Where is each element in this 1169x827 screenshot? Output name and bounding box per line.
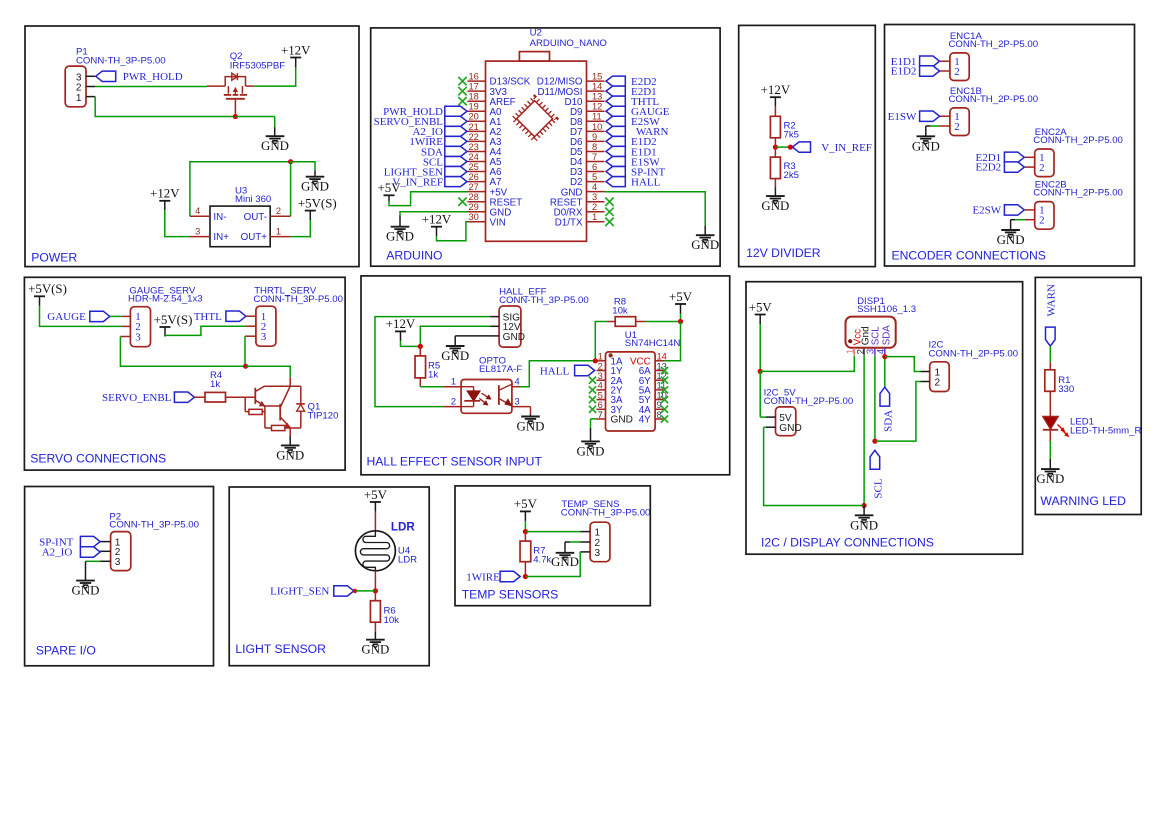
svg-text:GND: GND — [386, 230, 414, 244]
ground symbol power-2 — [306, 176, 325, 178]
svg-text:3: 3 — [115, 557, 121, 568]
junction hall 12V node — [418, 344, 423, 349]
wire gnd rail to Q1 collector — [246, 366, 291, 377]
net flag E1D2 — [920, 66, 940, 76]
connector HALL_EFF CONN-TH_3P-P5.00 — [499, 306, 521, 347]
resistor R2 7k5 — [770, 116, 780, 138]
ENC2A pin 1 stub — [1025, 156, 1035, 158]
wire flag to node — [355, 590, 375, 592]
U2 right pin 8 D5 — [587, 150, 605, 152]
svg-text:12V DIVIDER: 12V DIVIDER — [746, 246, 821, 260]
ENC2A pin 2 stub — [1025, 166, 1035, 168]
WARNING LED section frame — [1035, 277, 1141, 514]
wire P2 pin3 to ground — [86, 560, 100, 562]
svg-text:LDR: LDR — [398, 555, 417, 566]
svg-text:10k: 10k — [384, 615, 400, 626]
svg-text:GAUGE: GAUGE — [47, 311, 86, 323]
R3 lower lead — [774, 179, 776, 188]
wire SDA node to I2C pin1 — [885, 357, 921, 372]
svg-text:SERVO CONNECTIONS: SERVO CONNECTIONS — [30, 451, 166, 465]
svg-text:GND: GND — [551, 555, 579, 569]
no-connect X on U1 right pin 13 — [661, 367, 668, 374]
svg-text:GND: GND — [261, 139, 289, 153]
svg-text:13: 13 — [592, 92, 602, 102]
wire GAUGE flag to pin1 — [110, 315, 122, 317]
svg-text:28: 28 — [469, 192, 479, 202]
ic U1 SN74HC14N — [606, 352, 656, 431]
svg-text:CONN-TH_3P-P5.00: CONN-TH_3P-P5.00 — [561, 507, 651, 518]
svg-text:2: 2 — [1039, 162, 1045, 174]
svg-text:3: 3 — [592, 192, 597, 202]
wire +5V(S) to GAUGE_SERV pin2 — [40, 306, 122, 327]
svg-text:6: 6 — [592, 162, 597, 172]
svg-text:1: 1 — [598, 352, 603, 362]
svg-text:CONN-TH_2P-P5.00: CONN-TH_2P-P5.00 — [949, 94, 1039, 105]
svg-text:4.7k: 4.7k — [533, 555, 551, 566]
THRTL_SERV pin stubs — [246, 315, 256, 317]
svg-text:330: 330 — [1058, 384, 1074, 395]
OPTO light arrows — [482, 393, 491, 399]
U3 pin 2 stub — [270, 215, 290, 217]
svg-text:GND: GND — [761, 199, 789, 213]
svg-text:4Y: 4Y — [639, 415, 651, 426]
svg-text:3: 3 — [595, 548, 601, 559]
wire U2 pin4 GND to ground right — [605, 192, 706, 226]
svg-text:SSH1106_1.3: SSH1106_1.3 — [857, 304, 916, 315]
net flag 1WIRE (U2 left) — [445, 136, 467, 146]
svg-text:+5V: +5V — [377, 181, 401, 195]
net flag E1D1 — [920, 56, 940, 66]
junction at Q2 gate node — [233, 114, 238, 119]
display DISP1 SSH1106_1.3 — [846, 317, 896, 348]
net flag V_IN_REF — [793, 142, 811, 152]
wire SDA pin down — [884, 363, 886, 387]
svg-text:SN74HC14N: SN74HC14N — [625, 338, 681, 349]
U3 pin 3 stub — [190, 236, 210, 238]
U1 left pin 5 3A — [597, 399, 606, 401]
svg-text:GND: GND — [997, 233, 1025, 247]
connector P1 CONN-TH_3P-P5.00 — [65, 66, 86, 107]
transistor Q1 TIP120 darlington — [289, 377, 291, 386]
net flag E1D2 (U2 right) — [606, 136, 625, 146]
SPARE I/O section frame — [25, 487, 214, 666]
svg-text:GND: GND — [503, 332, 525, 343]
wire node to TEMP_SENS pin1 — [525, 531, 580, 533]
svg-text:GND: GND — [276, 448, 304, 462]
svg-text:U2: U2 — [530, 28, 542, 39]
U2 right pin 7 D4 — [587, 161, 605, 163]
U2 right pin 2 D0/RX — [587, 211, 605, 213]
U2 left pin 29 GND — [468, 211, 486, 213]
no-connect X on right pin 1 — [605, 218, 613, 226]
wire +12V to U2 pin30 VIN — [437, 222, 468, 241]
net flag E1SW — [920, 111, 940, 121]
net flag THTL (U2 right) — [606, 96, 625, 106]
ground symbol opto — [521, 416, 540, 418]
svg-text:6: 6 — [598, 400, 603, 410]
svg-text:12: 12 — [592, 102, 602, 112]
svg-text:1: 1 — [451, 376, 456, 386]
net flag E2SW (U2 right) — [606, 116, 625, 126]
svg-text:IRF5305PBF: IRF5305PBF — [230, 61, 286, 72]
wire gate node to GND drop — [235, 116, 274, 118]
I2C / DISPLAY CONNECTIONS section frame — [746, 282, 1023, 555]
svg-text:11: 11 — [592, 112, 602, 122]
svg-text:TIP120: TIP120 — [308, 411, 339, 422]
wire opto pin3 to ground — [530, 407, 532, 415]
wire GAUGE_SERV pin3 down to servo gnd rail — [120, 337, 245, 367]
svg-text:GND: GND — [361, 643, 389, 657]
I2C_5V pin stubs — [766, 416, 776, 418]
U1 right pin 12 6Y — [655, 379, 664, 381]
OPTO pin 4 stub — [512, 386, 520, 388]
svg-text:SPARE I/O: SPARE I/O — [36, 643, 96, 657]
net flag E2D2 — [1004, 162, 1024, 172]
svg-text:IN+: IN+ — [213, 232, 229, 243]
connector ENC1B CONN-TH_2P-P5.00 — [950, 108, 969, 136]
U2 left pin 17 3V3 — [468, 90, 486, 92]
U2 left pin 18 AREF — [468, 100, 486, 102]
U2 left pin 27 +5V — [468, 191, 486, 193]
U1 left pin 6 3Y — [597, 408, 606, 410]
U2 left pin 28 RESET — [468, 201, 486, 203]
U1 left pin 2 1Y — [597, 370, 606, 372]
no-connect X on U1 right pin 10 — [661, 396, 668, 403]
POWER section frame — [25, 26, 359, 267]
ground symbol power-1 — [266, 135, 285, 137]
wire Gnd pin down to gnd rail — [863, 363, 865, 506]
U2 left pin 23 A4 — [468, 150, 486, 152]
junction 1WIRE node — [523, 574, 528, 579]
no-connect X on right pin 2 — [605, 208, 613, 216]
ENC1B pin 1 stub — [940, 115, 950, 117]
wire 12V pin riser — [420, 326, 490, 346]
wire U1 pin7 to ground — [591, 418, 597, 420]
P2 pin stubs — [100, 541, 111, 543]
no-connect X on left pin 16 — [458, 77, 466, 85]
wire ENC2B pin2 to ground — [1015, 219, 1025, 221]
svg-text:1k: 1k — [210, 379, 220, 390]
ldr U4 meander — [360, 531, 389, 571]
svg-text:+12V: +12V — [386, 317, 416, 331]
ground symbol hall connector — [446, 345, 465, 347]
wire +12V to U3 IN+ — [165, 210, 190, 236]
no-connect X on right pin 3 — [605, 198, 613, 206]
svg-text:CONN-TH_3P-P5.00: CONN-TH_3P-P5.00 — [253, 294, 343, 305]
wire P1 pin2 to Q2 source — [95, 86, 207, 88]
svg-text:GND: GND — [441, 349, 469, 363]
no-connect X on U1 right pin 11 — [661, 386, 668, 393]
net flag PWR_HOLD — [96, 71, 116, 81]
R6 leads — [374, 591, 376, 601]
U2 right pin 15 D12/MISO — [587, 80, 605, 82]
net flag E1SW (U2 right) — [606, 156, 625, 166]
svg-text:ARDUINO_NANO: ARDUINO_NANO — [530, 38, 607, 49]
U2 left pin 20 A1 — [468, 120, 486, 122]
svg-text:2: 2 — [592, 202, 597, 212]
svg-text:17: 17 — [469, 82, 479, 92]
svg-text:4: 4 — [598, 381, 603, 391]
svg-text:1WIRE: 1WIRE — [466, 571, 500, 583]
Q1 emitter lead — [289, 428, 291, 435]
svg-text:3: 3 — [135, 331, 141, 343]
connector ENC2A CONN-TH_2P-P5.00 — [1035, 149, 1054, 177]
svg-text:4: 4 — [515, 376, 520, 386]
U2 left pin 21 A2 — [468, 130, 486, 132]
svg-text:3: 3 — [195, 227, 200, 237]
svg-text:+5V: +5V — [364, 488, 388, 502]
LDR lower lead — [374, 571, 376, 591]
svg-text:GND: GND — [577, 444, 605, 458]
P1 pin 2 stub — [86, 86, 95, 88]
net flag SDA (U2 left) — [445, 146, 467, 156]
ground symbol divider — [766, 195, 785, 197]
svg-text:8: 8 — [657, 410, 662, 420]
Q2 gate lead — [234, 99, 236, 117]
U2 right pin 9 D6 — [587, 140, 605, 142]
svg-text:CONN-TH_2P-P5.00: CONN-TH_2P-P5.00 — [949, 39, 1039, 50]
svg-text:E1D2: E1D2 — [891, 66, 917, 78]
U2 left pin 24 A5 — [468, 161, 486, 163]
svg-text:16: 16 — [469, 72, 479, 82]
wire +5V to LDR — [374, 511, 376, 531]
ENC2B pin 2 stub — [1025, 219, 1035, 221]
U2 left pin 30 VIN — [468, 221, 486, 223]
ground symbol arduino-right — [696, 234, 715, 236]
svg-text:SDA: SDA — [883, 410, 895, 432]
svg-text:2: 2 — [935, 377, 941, 388]
resistor R6 10k — [370, 601, 380, 623]
net flag LIGHT_SEN (U2 left) — [445, 167, 467, 177]
net flag SP-INT (U2 right) — [606, 167, 625, 177]
net flag A2_IO (U2 left) — [445, 126, 467, 136]
connector ENC1A CONN-TH_2P-P5.00 — [950, 53, 969, 81]
junction U3 OUT- / GND — [288, 159, 293, 164]
svg-text:7: 7 — [598, 410, 603, 420]
svg-text:10: 10 — [592, 122, 602, 132]
svg-text:25: 25 — [469, 162, 479, 172]
svg-text:CONN-TH_2P-P5.00: CONN-TH_2P-P5.00 — [1033, 135, 1123, 146]
junction SDA node — [882, 354, 887, 359]
wire +12V to node — [401, 341, 421, 347]
wire to V_IN_REF flag — [775, 146, 790, 148]
svg-text:7: 7 — [592, 152, 597, 162]
resistor R7 4.7k — [520, 541, 531, 562]
svg-text:GND: GND — [611, 415, 633, 426]
svg-text:PWR_HOLD: PWR_HOLD — [123, 71, 183, 83]
ground symbol warning — [1041, 468, 1060, 470]
wire THRTL_SERV pin3 to gnd rail — [244, 336, 246, 366]
no-connect X on U1 left pin 6 — [589, 406, 596, 413]
svg-text:Gnd: Gnd — [860, 326, 871, 345]
no-connect X on left pin 18 — [458, 97, 466, 105]
svg-text:2: 2 — [954, 121, 960, 133]
R2 lower lead — [774, 138, 776, 147]
U2 right pin 13 D10 — [587, 100, 605, 102]
svg-text:GND: GND — [691, 238, 719, 252]
U2 right pin 12 D9 — [587, 110, 605, 112]
resistor R1 330 — [1045, 370, 1055, 392]
svg-text:OUT-: OUT- — [244, 212, 267, 223]
R8 right lead to +5V riser — [636, 321, 646, 323]
junction i2c +5V node — [758, 369, 763, 374]
svg-text:2k5: 2k5 — [784, 170, 799, 181]
no-connect X on left pin 17 — [458, 87, 466, 95]
svg-text:WARNING LED: WARNING LED — [1040, 494, 1126, 508]
R5 leads — [419, 346, 421, 356]
svg-text:HALL EFFECT SENSOR INPUT: HALL EFFECT SENSOR INPUT — [367, 455, 543, 469]
U2 right pin 11 D8 — [587, 120, 605, 122]
wire opto pin4 up to hall row — [520, 361, 595, 387]
wire I2C_5V GND down to rail — [764, 426, 766, 428]
ENC1A pin 1 stub — [940, 60, 950, 62]
U1 right pin 8 4Y — [655, 418, 664, 420]
svg-text:20: 20 — [469, 112, 479, 122]
svg-text:1k: 1k — [428, 369, 438, 380]
net flag E2D2 (U2 right) — [606, 76, 625, 86]
svg-text:WARN: WARN — [1046, 284, 1058, 316]
ground symbol arduino-left — [391, 226, 410, 228]
R1 lower lead — [1049, 391, 1051, 416]
wire gnd rail to ground — [863, 506, 865, 516]
ldr U4 body circle — [355, 531, 395, 571]
svg-text:9: 9 — [592, 132, 597, 142]
R8 left elbow to U1 pin1 — [607, 321, 616, 323]
svg-text:+5V: +5V — [514, 497, 538, 511]
OPTO pin 1 stub — [443, 386, 461, 388]
svg-text:GND: GND — [850, 518, 878, 532]
OPTO pin 3 stub — [512, 406, 531, 408]
resistor R5 1k — [415, 356, 426, 378]
net flag SERVO_ENBL — [174, 392, 194, 402]
mcu U2 ARDUINO_NANO body — [486, 61, 587, 241]
HALL_EFF pin stubs — [490, 316, 499, 318]
no-connect X on U1 left pin 5 — [589, 396, 596, 403]
svg-text:GND: GND — [517, 420, 545, 434]
U1 left pin 4 2Y — [597, 389, 606, 391]
svg-text:10k: 10k — [612, 305, 628, 316]
svg-text:OUT+: OUT+ — [241, 232, 268, 243]
ground symbol servo — [281, 444, 300, 446]
svg-text:E2SW: E2SW — [972, 205, 1001, 217]
no-connect X on U1 right pin 12 — [661, 377, 668, 384]
wire +5V to node — [524, 521, 526, 532]
net flag WARN (down) — [1046, 327, 1056, 346]
svg-text:+5V(S): +5V(S) — [28, 282, 67, 296]
wire P1 pin1 down-right to gate node — [95, 97, 233, 117]
net flag HALL — [575, 365, 595, 375]
OPTO internal led — [461, 386, 474, 388]
wire ENC1B pin2 to ground — [930, 125, 940, 127]
wire TEMP_SENS pin2 to ground — [570, 541, 580, 543]
svg-text:THTL: THTL — [194, 311, 222, 323]
12V DIVIDER section frame — [739, 25, 876, 266]
wire +12V to R2 — [774, 107, 776, 117]
P1 pin 1 stub — [86, 96, 95, 98]
svg-text:+5V(S): +5V(S) — [298, 196, 337, 210]
svg-text:GND: GND — [912, 139, 940, 153]
net flag HALL (U2 right) — [606, 177, 625, 187]
ENC2B pin 1 stub — [1025, 209, 1035, 211]
svg-text:2: 2 — [598, 361, 603, 371]
svg-text:SCL: SCL — [871, 326, 882, 346]
net flag GAUGE — [90, 311, 110, 321]
svg-text:IN-: IN- — [213, 212, 226, 223]
svg-text:HALL: HALL — [631, 176, 661, 188]
wire WARN to R1 — [1049, 346, 1051, 362]
svg-text:9: 9 — [657, 400, 662, 410]
svg-text:SDA: SDA — [881, 325, 892, 346]
svg-text:3: 3 — [515, 396, 520, 406]
svg-text:CONN-TH_2P-P5.00: CONN-TH_2P-P5.00 — [1033, 188, 1123, 199]
U2 left pin 22 A3 — [468, 140, 486, 142]
resistor R3 2k5 — [770, 157, 780, 179]
svg-text:EL817A-F: EL817A-F — [479, 364, 522, 375]
net flag WARN (U2 right) — [606, 126, 625, 136]
svg-text:22: 22 — [469, 132, 479, 142]
svg-text:CONN-TH_3P-P5.00: CONN-TH_3P-P5.00 — [109, 520, 199, 531]
wire GND pin elbow — [455, 335, 490, 337]
U1 right pin 9 4A — [655, 408, 664, 410]
ground symbol spare — [76, 580, 95, 582]
R7 leads — [524, 532, 526, 542]
svg-text:27: 27 — [469, 182, 479, 192]
P1 pin 3 stub — [86, 75, 95, 77]
no-connect X on U1 right pin 8 — [661, 415, 668, 422]
net flag V_IN_REF (U2 left) — [445, 177, 467, 187]
DISP1 pin1 marker dot — [848, 339, 852, 343]
svg-text:21: 21 — [469, 122, 479, 132]
svg-text:LIGHT_SEN: LIGHT_SEN — [270, 586, 329, 598]
svg-text:4: 4 — [195, 206, 200, 216]
wire +5V to U2 pin 27 — [389, 192, 468, 206]
net flag 1WIRE — [500, 571, 520, 581]
svg-text:4: 4 — [592, 182, 597, 192]
junction U1 pin1 node — [593, 358, 598, 363]
wire +5V riser — [680, 314, 682, 322]
svg-text:2: 2 — [954, 66, 960, 78]
TEMP SENSORS section frame — [455, 486, 650, 606]
no-connect X on left pin 28 — [458, 198, 466, 206]
svg-text:+12V: +12V — [761, 83, 791, 97]
I2C pin stubs — [920, 371, 929, 373]
LED1 cathode lead — [1049, 430, 1051, 441]
no-connect X on U1 left pin 4 — [589, 386, 596, 393]
svg-text:23: 23 — [469, 142, 479, 152]
U2 usb notch — [519, 52, 549, 62]
LED1 light arrows — [1058, 425, 1065, 432]
svg-text:30: 30 — [469, 212, 479, 222]
svg-text:+5V(S): +5V(S) — [154, 313, 193, 327]
R1 upper lead — [1049, 362, 1051, 369]
svg-text:2: 2 — [276, 206, 281, 216]
wire junction to GND-2 — [291, 162, 315, 171]
net flag E1D1 (U2 right) — [606, 146, 625, 156]
connector ENC2B CONN-TH_2P-P5.00 — [1035, 202, 1054, 230]
U1 pin1 marker dot — [609, 353, 613, 357]
svg-text:7k5: 7k5 — [784, 129, 799, 140]
U1 left pin 7 GND — [597, 418, 606, 420]
U2 right pin 10 D7 — [587, 130, 605, 132]
svg-text:5: 5 — [598, 390, 603, 400]
resistor R4 1k — [205, 392, 226, 402]
svg-text:D1/TX: D1/TX — [555, 217, 583, 228]
U2 right pin 6 D3 — [587, 171, 605, 173]
svg-text:VIN: VIN — [490, 217, 506, 228]
wire LED1 to ground — [1049, 441, 1051, 459]
svg-text:+12V: +12V — [150, 187, 180, 201]
ground symbol light — [366, 639, 385, 641]
